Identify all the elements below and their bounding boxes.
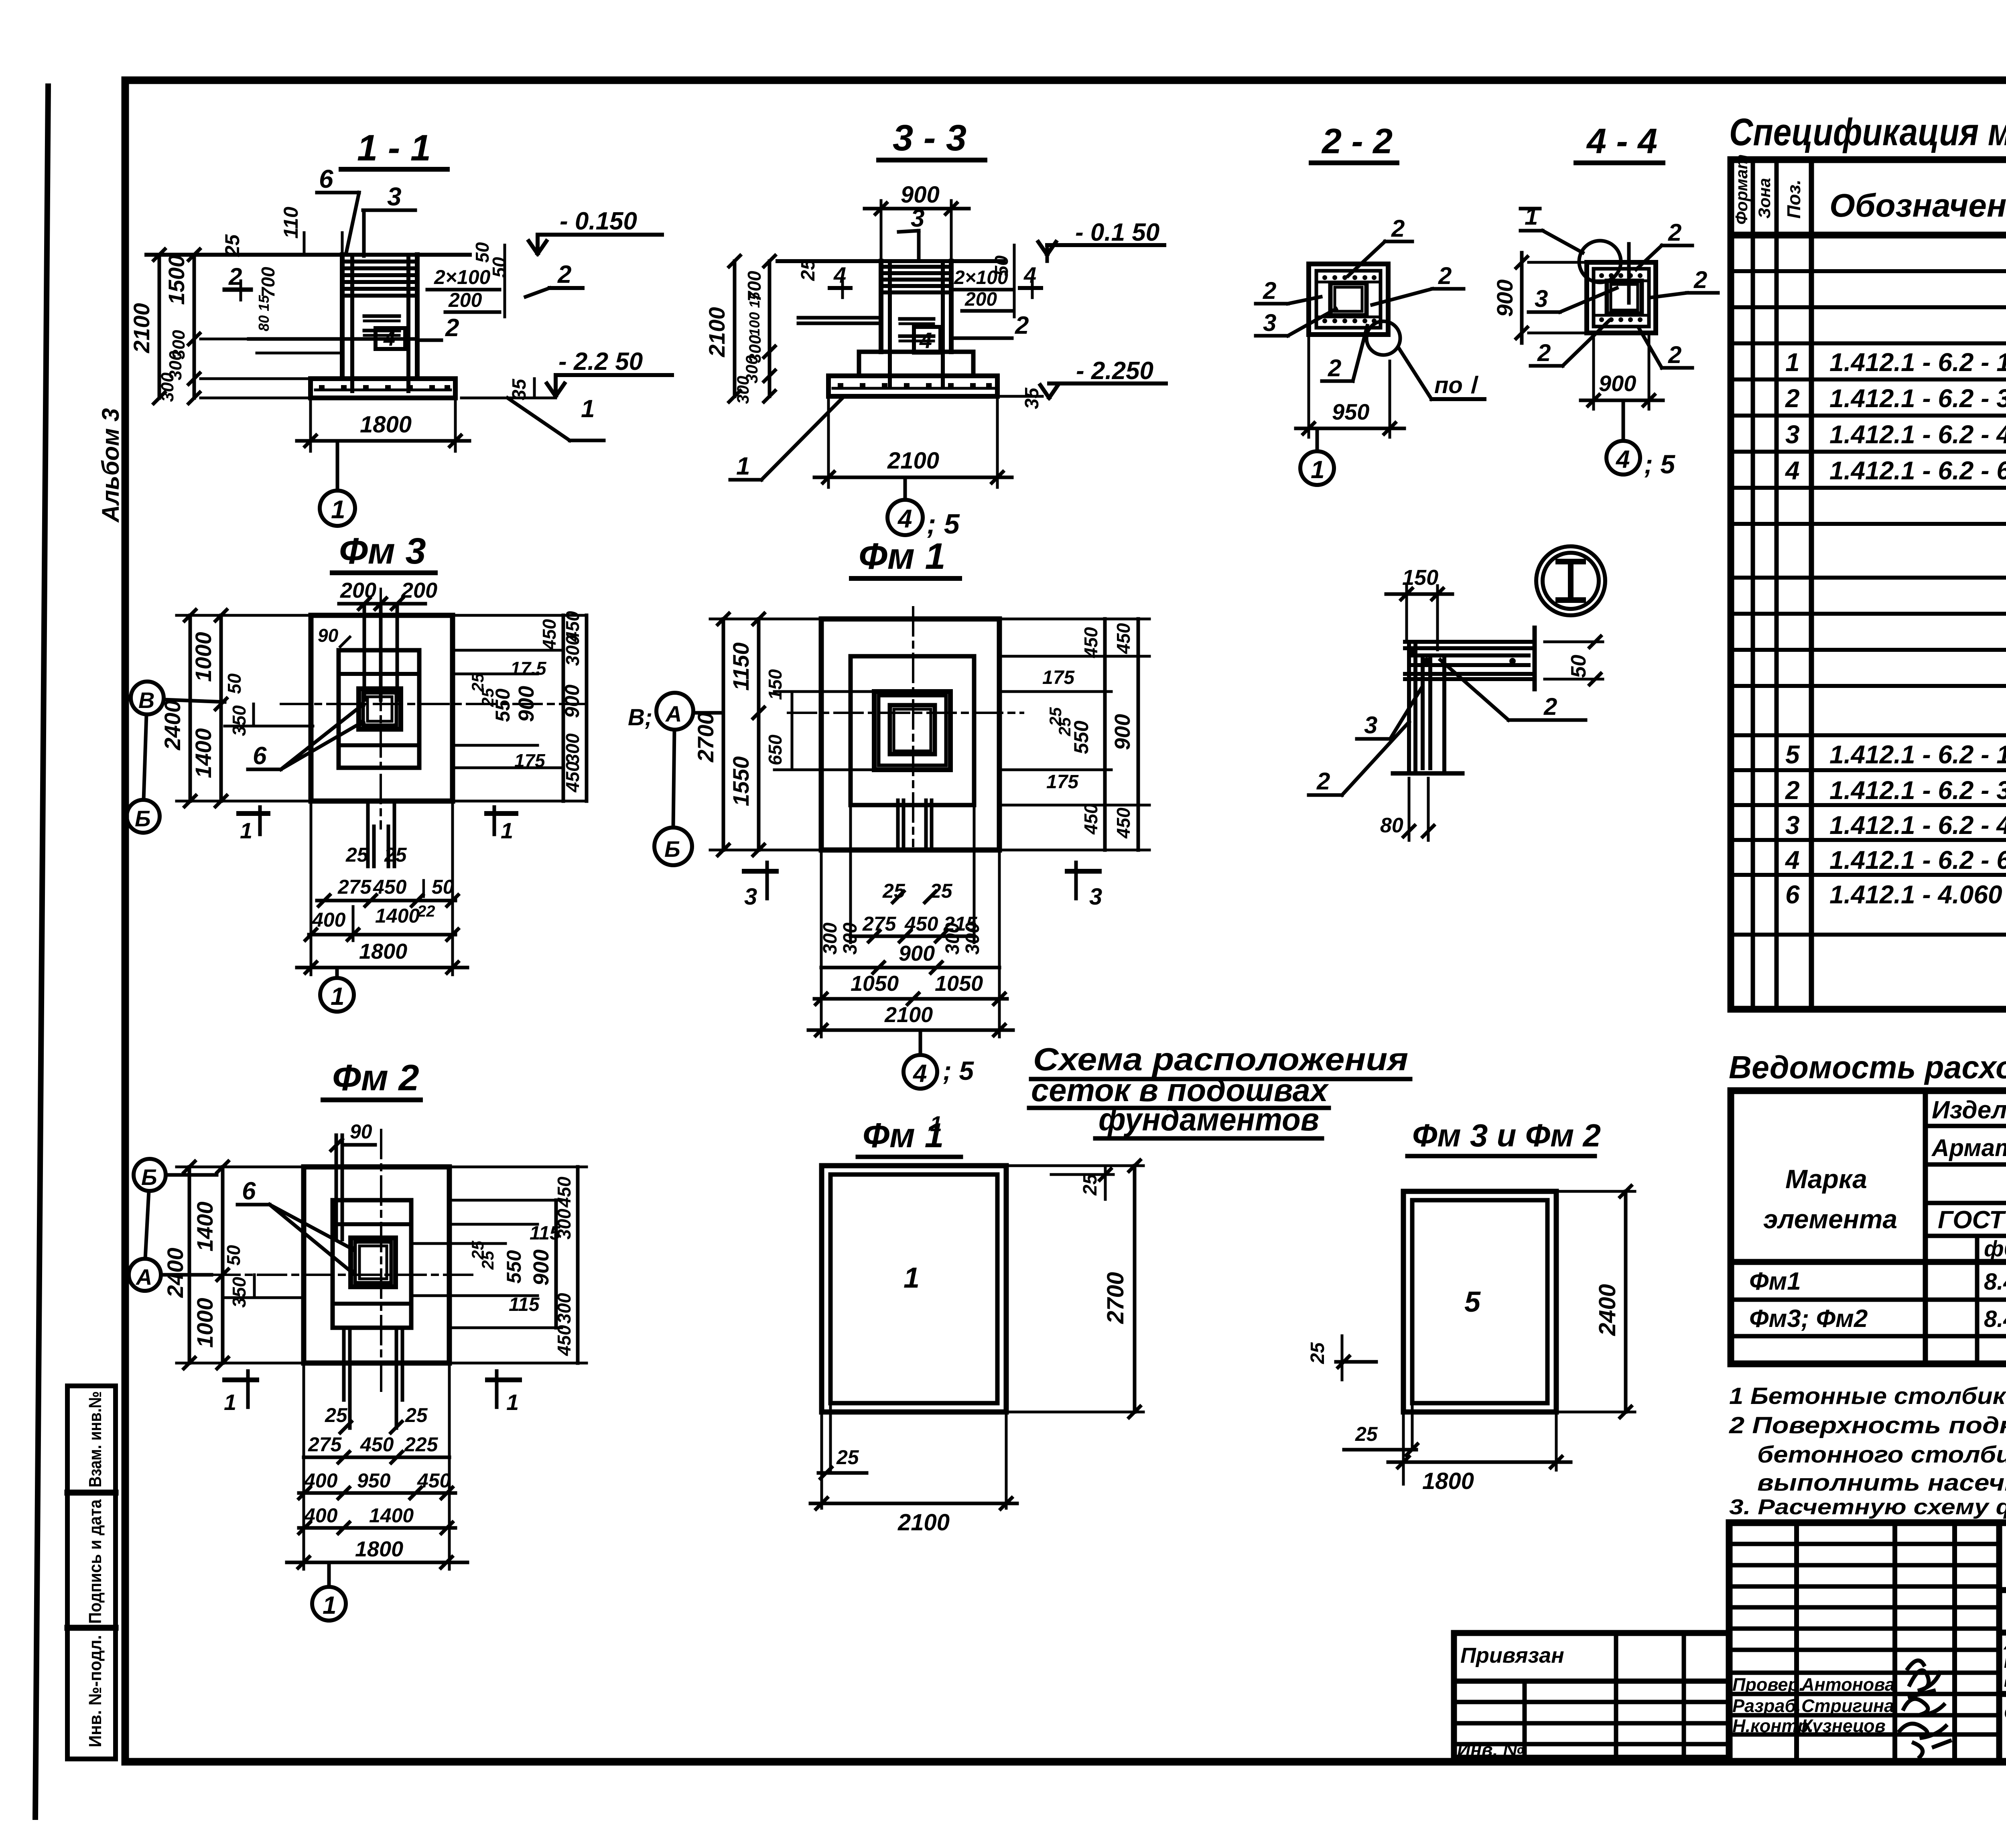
anchor core double: [890, 705, 935, 754]
svg-text:; 5: ; 5: [1644, 449, 1675, 479]
svg-text:2: 2: [1438, 262, 1452, 289]
svg-text:2×100: 2×100: [434, 266, 491, 288]
svg-text:1.412.1 - 6.2 - 6: 1.412.1 - 6.2 - 6: [1829, 456, 2006, 485]
svg-text:175: 175: [1042, 667, 1075, 688]
svg-text:1050: 1050: [935, 972, 983, 996]
svg-text:4: 4: [919, 328, 932, 353]
svg-text:выполнить насечку глубиной: выполнить насечку глубиной ⩾ 5 мм.: [1757, 1470, 2006, 1496]
svg-text:1: 1: [331, 983, 344, 1010]
horizontal mesh arm: [1405, 642, 1535, 679]
svg-text:450: 450: [360, 1433, 394, 1456]
svg-text:Фм 1: Фм 1: [859, 536, 946, 577]
svg-text:Фм3; Фм2: Фм3; Фм2: [1749, 1305, 1868, 1333]
svg-text:550: 550: [503, 1250, 525, 1284]
svg-text:2: 2: [1785, 776, 1800, 805]
middle step: [859, 352, 973, 376]
svg-text:1000: 1000: [191, 632, 216, 682]
svg-text:4: 4: [833, 262, 846, 288]
svg-text:550: 550: [1070, 720, 1092, 754]
svg-text:115: 115: [509, 1294, 540, 1315]
svg-text:100 15: 100 15: [746, 292, 763, 336]
pedestal walls: [879, 261, 883, 352]
svg-text:элемента: элемента: [1763, 1204, 1897, 1234]
outer footing rect: [311, 615, 453, 801]
svg-text:8.4: 8.4: [1984, 1269, 2006, 1295]
svg-text:- 0.150: - 0.150: [560, 207, 637, 235]
svg-text:450: 450: [562, 761, 583, 793]
svg-text:900: 900: [899, 941, 935, 966]
svg-text:Изделия арматурные: Изделия арматурные: [1932, 1096, 2006, 1124]
svg-text:2: 2: [445, 314, 459, 342]
axis circle 1: [1300, 451, 1334, 485]
svg-text:175: 175: [514, 750, 546, 771]
axis circle 4 with 5: [1606, 441, 1640, 475]
svg-text:3: 3: [1263, 309, 1276, 336]
core square double: [1330, 283, 1366, 315]
callout circle top-left: [1579, 241, 1621, 282]
svg-text:200: 200: [401, 578, 437, 602]
mesh lines inside: [1316, 281, 1381, 284]
svg-text:Разраб.: Разраб.: [1732, 1696, 1801, 1716]
svg-text:1400: 1400: [192, 1201, 217, 1252]
svg-text:1800: 1800: [360, 412, 412, 438]
svg-text:4: 4: [912, 1060, 927, 1087]
inner square: [1594, 269, 1649, 327]
svg-text:3. Расчетную схему фундамент: 3. Расчетную схему фундаментов см . КЖ 8: [1729, 1495, 2006, 1519]
svg-text:3: 3: [387, 182, 402, 211]
svg-text:25: 25: [384, 844, 407, 866]
label 4 boxed 3-3: [914, 327, 940, 353]
right extension lines: [453, 614, 587, 617]
mesh bar pair from top: [335, 1135, 338, 1239]
mesh pair verticals below pedestal: [896, 800, 900, 848]
slab rebar line and dots: [315, 389, 451, 392]
svg-text:6: 6: [242, 1177, 256, 1205]
svg-text:Подпись и дата: Подпись и дата: [85, 1499, 105, 1624]
svg-text:450: 450: [1080, 803, 1101, 835]
svg-text:50: 50: [1567, 655, 1590, 678]
embedded mesh marks: [900, 317, 934, 321]
svg-text:2400: 2400: [1594, 1284, 1620, 1336]
svg-text:1.412.1 - 6.2 - 1: 1.412.1 - 6.2 - 1: [1829, 348, 2006, 377]
ground line: [778, 259, 1004, 263]
svg-text:Б: Б: [664, 836, 680, 862]
right end bar: [1533, 628, 1537, 689]
title block outer: [1729, 1523, 2006, 1762]
svg-text:50: 50: [223, 1245, 244, 1266]
right extension lines FM2: [449, 1166, 587, 1168]
outer square: [1309, 264, 1388, 335]
long leader into section: [798, 316, 881, 320]
svg-text:2: 2: [1537, 339, 1551, 366]
svg-text:450: 450: [539, 619, 560, 650]
svg-text:3: 3: [1785, 811, 1800, 840]
svg-text:1: 1: [1785, 348, 1800, 377]
svg-text:2100: 2100: [704, 307, 729, 357]
svg-text:4: 4: [897, 504, 912, 533]
svg-text:50: 50: [489, 257, 510, 278]
section marks 1-1 bottom: [239, 811, 268, 816]
step rect: [851, 656, 974, 805]
svg-text:200: 200: [448, 289, 482, 311]
svg-text:3: 3: [911, 205, 924, 232]
svg-text:1400: 1400: [375, 905, 420, 927]
svg-text:А: А: [665, 701, 682, 726]
svg-text:2400: 2400: [162, 1248, 188, 1298]
svg-text:900: 900: [1492, 280, 1517, 317]
column rebar verticals: [350, 257, 354, 391]
axis circle 1 bottom FM2: [312, 1587, 346, 1621]
svg-text:| 50: | 50: [420, 876, 454, 898]
axes FM2: [211, 1274, 476, 1276]
footing slab: [311, 379, 455, 398]
leader label 1: [508, 398, 570, 440]
svg-text:2100: 2100: [129, 303, 154, 353]
callout circle bottom-right: [1366, 321, 1400, 355]
svg-text:2400: 2400: [160, 700, 185, 751]
axes: [281, 703, 586, 705]
svg-text:1800: 1800: [359, 939, 407, 964]
axis circle 1 bottom FM3: [320, 978, 354, 1012]
steel table data row ФМ1: [1749, 1267, 2006, 1295]
svg-text:25: 25: [1080, 1173, 1101, 1196]
svg-text:1: 1: [581, 395, 595, 423]
svg-text:450: 450: [554, 1325, 575, 1356]
pedestal: [874, 692, 950, 770]
svg-text:Обозначение: Обозначение: [1829, 187, 2006, 224]
svg-text:4: 4: [1785, 846, 1800, 874]
spec table row lines upper: [1731, 271, 2006, 935]
sheet outer left edge line: [35, 86, 48, 1817]
svg-text:900: 900: [561, 684, 583, 718]
extension lines left: [201, 338, 249, 341]
svg-text:2700: 2700: [693, 712, 718, 763]
left margin stamp strip: [67, 1386, 116, 1759]
left dims 3-3: [733, 261, 737, 396]
svg-text:25: 25: [405, 1404, 428, 1426]
svg-text:25: 25: [478, 1251, 497, 1270]
svg-text:Антонова: Антонова: [1801, 1674, 1895, 1695]
spec table outer border: [1731, 160, 2006, 1009]
spec items ФМ1: [1785, 348, 2006, 485]
svg-text:1.412.1 - 6.2 - 3: 1.412.1 - 6.2 - 3: [1829, 776, 2006, 805]
steel table data row ФМ3 ФМ2: [1749, 1305, 2006, 1333]
detail circle mark: [1536, 546, 1605, 615]
svg-text:2: 2: [557, 261, 571, 288]
svg-text:1: 1: [323, 1592, 336, 1619]
svg-text:; 5: ; 5: [943, 1056, 974, 1085]
svg-text:650: 650: [765, 734, 786, 765]
steel table outer border: [1731, 1091, 2006, 1364]
svg-text:50: 50: [991, 255, 1012, 276]
svg-text:Б: Б: [135, 806, 151, 831]
core square double: [1607, 281, 1642, 314]
step rect: [339, 650, 419, 768]
signatures squiggles: [1908, 1661, 1940, 1691]
bottom end bar: [1393, 771, 1462, 776]
svg-text:2: 2: [1693, 266, 1707, 293]
svg-text:1050: 1050: [851, 972, 899, 996]
svg-text:450: 450: [1113, 623, 1134, 654]
svg-text:В;: В;: [628, 704, 652, 730]
svg-text:950: 950: [357, 1469, 391, 1492]
svg-text:3: 3: [744, 884, 757, 910]
svg-text:2: 2: [1668, 219, 1681, 246]
svg-text:25: 25: [836, 1446, 859, 1469]
svg-text:1: 1: [904, 1262, 920, 1294]
dim 2700 right FM1 scheme: [1008, 1164, 1143, 1167]
bottom dim 1800: [309, 400, 312, 451]
steel table verticals: [1923, 1091, 1928, 1364]
rebar dots: [1599, 273, 1643, 322]
svg-text:900: 900: [901, 182, 940, 208]
right dim lines: [562, 615, 565, 801]
svg-text:25: 25: [325, 1404, 348, 1426]
svg-text:300: 300: [158, 372, 177, 402]
svg-text:1.412.1 - 4.060: 1.412.1 - 4.060: [1829, 880, 2002, 909]
svg-text:35: 35: [1021, 387, 1043, 409]
svg-text:1 - 1: 1 - 1: [357, 128, 431, 168]
svg-text:1400: 1400: [369, 1504, 414, 1527]
svg-text:Альбом 3: Альбом 3: [97, 408, 124, 523]
svg-text:Спецификация монолитных фунд: Спецификация монолитных фундаментов: [1729, 111, 2006, 154]
svg-text:300: 300: [562, 733, 583, 764]
svg-text:300: 300: [733, 376, 752, 404]
svg-text:1150: 1150: [728, 643, 753, 691]
svg-text:2: 2: [1328, 355, 1341, 381]
leader line y845: [249, 337, 417, 341]
outer footing rect FM2: [304, 1167, 449, 1363]
svg-text:Фм 3: Фм 3: [339, 531, 426, 572]
svg-text:Ведомость расхода стали на э: Ведомость расхода стали на элемент, кг: [1729, 1049, 2006, 1085]
svg-text:Поз.: Поз.: [1783, 180, 1804, 219]
steel table horizontals: [1925, 1124, 2006, 1128]
left dim chain inner: [193, 255, 196, 398]
svg-text:Инв. №-подл.: Инв. №-подл.: [85, 1635, 105, 1747]
svg-text:Арматура класса: Арматура класса: [1931, 1134, 2006, 1161]
vertical mesh arm: [1409, 644, 1444, 773]
svg-text:4: 4: [1023, 262, 1036, 288]
svg-text:275: 275: [337, 876, 372, 898]
svg-text:1400: 1400: [191, 728, 216, 778]
title block left grid rows: [1729, 1544, 1999, 1734]
svg-text:110: 110: [280, 207, 302, 239]
svg-text:300: 300: [554, 1293, 575, 1324]
svg-text:17.5: 17.5: [510, 658, 547, 679]
outer footing rect: [821, 619, 999, 850]
svg-text:Инв. №: Инв. №: [1457, 1739, 1524, 1760]
right dim lines FM2: [554, 1200, 558, 1328]
svg-text:8.4: 8.4: [1984, 1306, 2006, 1332]
svg-text:- 0.1 50: - 0.1 50: [1075, 219, 1159, 246]
svg-text:5: 5: [1464, 1286, 1481, 1318]
dim 900 bottom: [1592, 335, 1595, 409]
svg-text:бетонного столбика тщательно: бетонного столбика тщательно очистить и: [1757, 1442, 2006, 1468]
vertical line from label 1 to circle: [1627, 244, 1631, 303]
axis circles В Б: [131, 682, 164, 714]
dim 1800 bottom scheme: [1555, 1414, 1558, 1470]
svg-text:по Ⅰ: по Ⅰ: [1434, 372, 1479, 398]
svg-text:450: 450: [1080, 627, 1101, 658]
svg-text:Схема расположения: Схема расположения: [1033, 1041, 1408, 1077]
axis circle 4 5 bottom FM1: [904, 1055, 937, 1089]
axes: [788, 712, 1023, 714]
left dims FM3: [189, 615, 192, 801]
svg-text:6: 6: [253, 742, 267, 770]
svg-text:25: 25: [221, 234, 244, 257]
svg-text:фундаментов: фундаментов: [1098, 1101, 1319, 1137]
svg-text:1: 1: [331, 495, 345, 524]
svg-text:350: 350: [229, 705, 250, 736]
svg-text:4: 4: [383, 327, 395, 351]
svg-text:Привязан: Привязан: [1460, 1643, 1564, 1667]
svg-text:2 - 2: 2 - 2: [1321, 121, 1393, 161]
ground line: [146, 253, 470, 257]
svg-text:1: 1: [501, 818, 513, 843]
svg-text:ф6: ф6: [1984, 1236, 2006, 1261]
svg-text:1000: 1000: [192, 1298, 217, 1348]
svg-text:175: 175: [1046, 771, 1079, 793]
svg-text:1.412.1 - 6.2 - 1: 1.412.1 - 6.2 - 1: [1829, 740, 2006, 769]
svg-text:2100: 2100: [884, 1003, 933, 1027]
svg-text:1.412.1 - 6.2 - 3: 1.412.1 - 6.2 - 3: [1829, 384, 2006, 413]
pedestal column walls: [340, 255, 345, 379]
scheme FM3FM2 rect: [1403, 1191, 1556, 1412]
svg-text:1.412.1 - 6.2 - 6: 1.412.1 - 6.2 - 6: [1829, 846, 2006, 874]
svg-text:4: 4: [1785, 456, 1800, 485]
svg-text:Взам. инв.№: Взам. инв.№: [85, 1391, 105, 1487]
svg-text:25: 25: [1307, 1342, 1328, 1364]
svg-text:2: 2: [1263, 277, 1276, 304]
svg-text:300: 300: [562, 635, 583, 666]
scheme FM1 rect: [822, 1166, 1006, 1412]
svg-text:25: 25: [798, 259, 819, 281]
svg-text:2: 2: [1391, 215, 1405, 242]
outer square: [1587, 262, 1656, 333]
svg-text:водительностью 50кгхлора в час: водительностью 50кгхлора в час: [2004, 1670, 2006, 1691]
svg-text:3: 3: [1089, 884, 1102, 910]
svg-text:225: 225: [404, 1433, 439, 1456]
svg-text:900: 900: [1599, 371, 1636, 396]
svg-text:3 - 3: 3 - 3: [893, 118, 966, 158]
svg-text:1500: 1500: [164, 255, 189, 305]
right extension lines FM1: [999, 618, 1149, 621]
dim 900 left: [1529, 261, 1587, 264]
svg-text:275: 275: [308, 1433, 342, 1456]
step rect FM2: [333, 1200, 411, 1328]
svg-text:; 5: ; 5: [927, 508, 960, 540]
svg-text:50: 50: [224, 673, 245, 694]
spec items ФМ3 ФМ2: [1785, 740, 2006, 916]
svg-text:200: 200: [964, 289, 997, 310]
dim 2400 right scheme: [1558, 1190, 1635, 1193]
svg-text:Фм1: Фм1: [1749, 1268, 1801, 1295]
svg-text:1: 1: [224, 1390, 236, 1415]
pedestal FM2: [351, 1238, 396, 1287]
svg-text:1.412.1 - 6.2 - 4: 1.412.1 - 6.2 - 4: [1829, 420, 2006, 449]
svg-text:900: 900: [514, 686, 538, 722]
svg-text:1: 1: [930, 1112, 942, 1136]
svg-text:80: 80: [1380, 814, 1403, 837]
svg-text:1800: 1800: [355, 1537, 403, 1561]
svg-text:900: 900: [1111, 714, 1135, 750]
svg-text:35: 35: [509, 378, 530, 400]
svg-text:1 Бетонные столбики условно: 1 Бетонные столбики условно не показаны.: [1729, 1383, 2006, 1409]
svg-text:Зона: Зона: [1755, 178, 1774, 219]
spec table header row: [1731, 232, 2006, 239]
svg-text:- 2.2 50: - 2.2 50: [558, 348, 643, 375]
bottom dim 2100: [827, 398, 830, 487]
stirrups: [882, 267, 950, 292]
axis circle 1: [320, 491, 355, 526]
svg-text:1: 1: [506, 1390, 519, 1415]
svg-text:питьевых и сточных вод произ-: питьевых и сточных вод произ-: [2004, 1651, 2006, 1672]
mesh pair verticals below FM2: [342, 1328, 346, 1400]
embedded mesh marks: [364, 314, 399, 318]
svg-text:Фм 3 и Фм 2: Фм 3 и Фм 2: [1412, 1118, 1601, 1153]
dim 2100 bottom FM1 scheme: [1005, 1414, 1008, 1508]
svg-text:1800: 1800: [1422, 1468, 1474, 1494]
rebar dots top/bottom: [1322, 275, 1377, 323]
svg-text:Б: Б: [141, 1164, 157, 1190]
svg-text:В: В: [138, 688, 154, 713]
svg-text:Марка: Марка: [1785, 1164, 1867, 1194]
axis circles Б А: [134, 1159, 166, 1191]
svg-text:1: 1: [240, 818, 252, 843]
svg-text:Стригина: Стригина: [1801, 1696, 1894, 1716]
svg-text:25: 25: [930, 880, 953, 902]
svg-text:450: 450: [1113, 807, 1134, 839]
left dim chain outer 2100: [158, 255, 161, 398]
svg-text:- 2.250: - 2.250: [1076, 357, 1153, 385]
svg-text:Фм 2: Фм 2: [332, 1057, 419, 1098]
svg-text:300: 300: [554, 1209, 575, 1239]
svg-text:300: 300: [942, 923, 963, 955]
svg-text:2100: 2100: [887, 448, 939, 474]
svg-text:Кузнецов: Кузнецов: [1801, 1716, 1886, 1736]
svg-text:Провер.: Провер.: [1732, 1674, 1804, 1695]
svg-text:А: А: [135, 1264, 152, 1290]
svg-text:3: 3: [1364, 712, 1377, 738]
svg-text:25: 25: [345, 844, 369, 866]
svg-text:2: 2: [1316, 768, 1330, 795]
svg-text:Фундаменты монолитные: Фундаменты монолитные: [2004, 1700, 2006, 1726]
dim 950: [1308, 337, 1310, 437]
svg-text:1: 1: [1311, 456, 1324, 484]
svg-text:ГОСТ 5781- 82: ГОСТ 5781- 82: [1938, 1206, 2006, 1234]
svg-text:25: 25: [1355, 1423, 1378, 1445]
axis circle 4 with 5: [887, 500, 923, 535]
svg-text:6: 6: [1785, 880, 1800, 909]
svg-text:950: 950: [1332, 399, 1369, 424]
svg-text:5: 5: [1785, 740, 1800, 769]
left dims FM2: [188, 1167, 191, 1363]
section marks 3 bottom FM1: [744, 869, 776, 874]
svg-text:4: 4: [1615, 446, 1630, 473]
svg-text:90: 90: [318, 625, 339, 646]
left dims FM1: [722, 619, 725, 850]
mesh pair verticals below: [366, 801, 370, 866]
svg-text:2: 2: [1543, 693, 1557, 720]
svg-text:22: 22: [417, 903, 435, 920]
svg-text:350: 350: [229, 1277, 250, 1308]
inner square: [1316, 271, 1381, 328]
svg-text:300: 300: [820, 923, 841, 955]
svg-text:80 15: 80 15: [256, 295, 272, 331]
mesh bar verticals from top: [363, 604, 366, 700]
svg-text:Формат: Формат: [1732, 154, 1751, 225]
letter I: [1568, 562, 1574, 600]
